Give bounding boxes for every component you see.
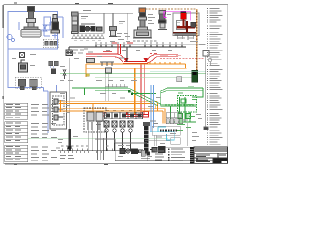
- bottom equipment outline box: [115, 139, 147, 161]
- wire drop from bus at node 127: [126, 47, 128, 62]
- foot hatch dashes under F1: [133, 40, 157, 42]
- pump PB1 blue circle: [7, 34, 15, 41]
- table row labels lower: [6, 123, 21, 141]
- relay K1: [66, 50, 73, 150]
- green junction dots: [128, 90, 133, 95]
- dashed filter box left: [15, 77, 41, 88]
- wire pale green long line: [28, 138, 168, 140]
- pilot valve left of solenoid: [177, 77, 182, 82]
- title block table: [194, 147, 228, 163]
- red marks on manifold left: [101, 112, 129, 116]
- cartridge valves in box D2: [45, 42, 57, 46]
- orange thick drop: [134, 68, 136, 114]
- title block texts: [196, 154, 226, 162]
- table row labels upper: [6, 104, 21, 118]
- power unit box D1: [79, 13, 134, 33]
- green small symbols: [178, 99, 191, 119]
- wire blue drop pair center: [151, 85, 154, 132]
- solenoid valve B1: [51, 15, 60, 39]
- orange pilot inside block: [60, 100, 62, 112]
- bus tick terminals: [96, 44, 182, 47]
- title block revision column: [190, 147, 194, 163]
- valve cells mid right cluster: [166, 113, 181, 118]
- filter unit E1: [109, 13, 128, 40]
- pressure gauge mid right: [208, 58, 212, 65]
- wire green long sense line: [60, 74, 206, 78]
- dashed box small manifold D2: [43, 39, 58, 48]
- wire cyan circuit bottom right: [150, 127, 174, 140]
- manifold dark cells: [106, 114, 142, 118]
- wire orange supply pair upper: [86, 62, 187, 77]
- wire pale teal line: [150, 71, 206, 73]
- cable bundle dark bar: [68, 129, 71, 151]
- main pump tower F1: [133, 8, 152, 38]
- connector strip pins: [160, 130, 177, 132]
- small relief valves right: [49, 61, 59, 74]
- main relief valve assembly A1: [24, 7, 38, 30]
- wire blue pilot circuit left loop: [8, 8, 63, 133]
- red cylinder block: [181, 13, 187, 20]
- center manifold strip: [105, 112, 143, 119]
- motor pump group M1: [80, 24, 102, 32]
- wire bottom black bus: [58, 148, 134, 153]
- maroon piping: [173, 19, 197, 33]
- wire red drop lines to manifold: [125, 63, 149, 117]
- manifold port labels: [96, 110, 158, 125]
- cooler fins row: [71, 35, 105, 41]
- wire gray drops to lower bus: [106, 73, 109, 101]
- mid-left label: [12, 54, 36, 66]
- gray tick line above green: [105, 84, 128, 87]
- green solenoid dark: [192, 70, 198, 82]
- piping columns bottom center: [95, 121, 147, 160]
- bundle clamp: [68, 146, 72, 149]
- instrument drop line right: [203, 51, 209, 130]
- valve block spools: [54, 99, 63, 120]
- left terminal table lower: [5, 122, 28, 143]
- wire red pressure line left: [86, 44, 178, 63]
- left terminal table upper: [5, 103, 28, 119]
- wire green control bus: [72, 88, 203, 106]
- valve blue V2 bowtie: [43, 25, 47, 31]
- red text over dashed: [160, 54, 181, 57]
- title block dark cells: [196, 158, 228, 163]
- box D1 labels: [81, 10, 91, 19]
- bottom bus labels: [60, 146, 108, 159]
- solenoid valve row bottom: [104, 121, 133, 151]
- labels near bundle: [56, 136, 78, 148]
- terminal labels row: [95, 42, 183, 45]
- tank T1: [21, 30, 41, 38]
- dark segmented column: [143, 122, 150, 154]
- accumulator stack C1: [72, 12, 79, 34]
- wire tan braided supply line: [146, 9, 197, 70]
- left terminal table third: [5, 145, 28, 162]
- filter elements F2 F3: [18, 79, 37, 87]
- paper sheet: [0, 0, 232, 170]
- connectors from valves to bus: [88, 130, 92, 150]
- gearbox assembly bottom: [120, 149, 143, 154]
- red label text: [103, 43, 157, 54]
- wire main black bus: [69, 45, 206, 56]
- coupling right of column: [150, 147, 165, 153]
- small IO blocks above strip: [166, 119, 183, 124]
- misc small instruments mid-left: [63, 59, 114, 80]
- lower-left valve group: [84, 108, 106, 132]
- red junction blobs: [124, 58, 148, 62]
- green tiny labels: [177, 86, 196, 131]
- red cylinder cap: [181, 11, 187, 13]
- wire orange bus pair lower: [59, 101, 165, 123]
- notes list left of title block: [155, 149, 185, 162]
- right legend list: [207, 8, 223, 145]
- machine base plate: [175, 23, 198, 40]
- wire magenta pilot line: [164, 11, 190, 20]
- gray machine outline top right H1: [173, 13, 199, 40]
- bottom strip line: [115, 148, 228, 161]
- small equipment left of notes: [141, 150, 150, 158]
- wire red dashed return: [160, 57, 205, 59]
- valve symbols on blue line: [20, 83, 37, 90]
- yellow indicator: [86, 74, 89, 77]
- title block header ticks: [196, 148, 226, 152]
- mid-left valve cluster: [19, 53, 28, 73]
- proportional valve block VB1: [50, 92, 67, 129]
- connector strip box bottom center-right: [145, 123, 188, 146]
- border frame: [4, 4, 228, 163]
- motor G1: [158, 11, 167, 30]
- green valve cluster right: [168, 96, 197, 123]
- border tick marks: [3, 3, 113, 164]
- scattered tiny labels: [60, 14, 205, 157]
- table row labels third: [6, 146, 21, 160]
- wiring symbols right of tables: [31, 104, 57, 161]
